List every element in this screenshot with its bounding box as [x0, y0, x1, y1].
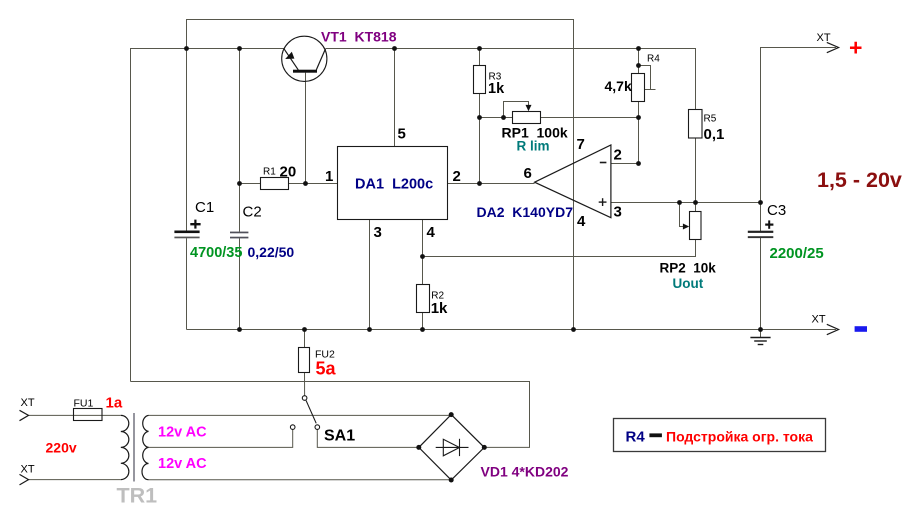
wire C1 column lower [186, 238, 188, 329]
potentiometer RP1 wiper arrowhead [526, 105, 532, 111]
wire R1 left [240, 183, 261, 185]
node plus-RP2top [693, 200, 698, 205]
capacitor C3 top plate [748, 231, 774, 233]
svg-text:220v: 220v [46, 439, 77, 455]
wire R4 bottom column [638, 102, 640, 164]
svg-text:R5: R5 [704, 113, 717, 124]
svg-text:0,22/50: 0,22/50 [248, 244, 295, 260]
svg-text:4700/35: 4700/35 [190, 245, 242, 261]
node bridge right [482, 445, 487, 450]
wire RP1 row left [480, 117, 513, 119]
wire DA1 pin2 to op-amp output [448, 183, 535, 185]
wire FU2 upper [304, 330, 306, 348]
wire R5 bottom [695, 138, 697, 203]
svg-text:C1: C1 [195, 199, 214, 216]
node rail-R3 [477, 46, 482, 51]
wire bridge plus return [131, 382, 530, 448]
terminal XT arrow plus output [827, 42, 839, 52]
node pin2-R3 [477, 181, 482, 186]
resistor R3 [474, 66, 486, 94]
wire op-amp minus input [611, 163, 639, 165]
svg-text:C2: C2 [243, 204, 262, 221]
svg-text:RP2 10k: RP2 10k [660, 260, 717, 275]
svg-text:DA1 L200c: DA1 L200c [355, 177, 433, 193]
transistor VT1 emitter line [284, 49, 298, 70]
node RP1 wiper [501, 115, 506, 120]
wire DA1 pin5 [394, 49, 396, 147]
node rail-R4 [636, 46, 641, 51]
svg-text:1k: 1k [488, 81, 505, 97]
svg-text:Подстройка огр. тока: Подстройка огр. тока [666, 428, 813, 444]
fuse FU1 [74, 409, 103, 421]
IC DA1 L200c box [338, 147, 448, 220]
node pin4-row [420, 254, 425, 259]
switch SA1 right contact [315, 425, 320, 430]
transistor VT1 collector line [316, 49, 325, 70]
wire pin4 row to RP2 bottom [423, 240, 696, 257]
svg-text:1a: 1a [106, 395, 123, 412]
wire main rail left of VT1 [131, 49, 284, 382]
wire R2 bottom [422, 313, 424, 330]
wire primary bottom [29, 479, 121, 481]
svg-text:R lim: R lim [517, 139, 550, 154]
transistor VT1 base bar [293, 70, 317, 73]
op-amp plus sign [599, 201, 607, 203]
wire R4 wiper bracket [639, 66, 651, 90]
svg-text:7: 7 [577, 136, 585, 153]
op-amp minus sign [600, 162, 607, 164]
node C2-R1 [237, 181, 242, 186]
svg-text:5a: 5a [316, 359, 337, 379]
svg-text:XT: XT [21, 397, 35, 409]
svg-text:XT: XT [817, 32, 831, 44]
terminal XT arrow bottom-left [20, 474, 29, 485]
potentiometer RP2 body [690, 212, 702, 240]
node bridge top [449, 412, 454, 417]
switch SA1 pole contact [302, 396, 307, 401]
wire ground bus [187, 329, 837, 331]
diode VD1 cathode bar [459, 439, 461, 456]
capacitor C3 plus sign [765, 224, 773, 226]
node bus-R2 [420, 327, 425, 332]
potentiometer RP2 wiper arrowhead [683, 224, 689, 230]
wire secondary bottom to bridge bottom [149, 479, 452, 481]
svg-text:XT: XT [21, 463, 35, 475]
svg-text:SA1: SA1 [324, 427, 355, 444]
svg-text:XT: XT [812, 314, 826, 326]
svg-text:5: 5 [398, 126, 406, 143]
node plus-RP2wiper [677, 200, 682, 205]
wire C3 column lower [760, 237, 762, 338]
svg-text:4,7k: 4,7k [605, 78, 632, 94]
switch SA1 left contact [290, 425, 295, 430]
svg-text:1k: 1k [431, 300, 448, 317]
op-amp DA2 triangle [535, 145, 611, 218]
node rail-C2 [237, 46, 242, 51]
svg-text:3: 3 [374, 224, 382, 241]
node bridge left [416, 445, 421, 450]
node RP1-R4 [636, 115, 641, 120]
terminal XT arrow minus output [827, 324, 839, 334]
transistor VT1 emitter arrow [285, 52, 294, 59]
svg-text:12v AC: 12v AC [158, 456, 207, 472]
capacitor C1 bottom plate [174, 237, 199, 239]
svg-text:FU1: FU1 [74, 398, 94, 410]
capacitor C1 top plate [174, 231, 199, 234]
transformer TR1 core [133, 413, 135, 482]
wire DA1 pin4 to R2 [422, 220, 424, 285]
potentiometer RP1 body [513, 112, 541, 124]
wire op-amp plus input row [611, 202, 761, 204]
svg-text:TR1: TR1 [117, 484, 158, 508]
node rail-pin5 [392, 46, 397, 51]
wire VT1 base column [305, 73, 307, 184]
wire primary top with FU1 [29, 414, 121, 416]
node base-R1 [303, 181, 308, 186]
svg-text:4: 4 [427, 224, 436, 241]
wire RP2 wiper lead [680, 203, 685, 227]
resistor R1 [261, 178, 289, 190]
svg-text:DA2 K140YD7: DA2 K140YD7 [477, 204, 574, 220]
svg-text:4: 4 [577, 213, 586, 230]
resistor R2 [417, 285, 430, 313]
node R3-RP1 [477, 115, 482, 120]
node bus-C2 [237, 327, 242, 332]
wire top loop rail to op-amp pin7 column [187, 20, 574, 330]
wire RP1 wiper bracket [504, 102, 529, 118]
svg-text:2: 2 [453, 168, 461, 185]
wire C3 column upper and plus output [761, 48, 837, 232]
svg-text:Uout: Uout [673, 276, 704, 291]
node bus-C3 [758, 327, 763, 332]
svg-text:R4: R4 [626, 428, 646, 445]
node R4 wiper top [636, 63, 641, 68]
svg-text:1,5 - 20v: 1,5 - 20v [817, 168, 902, 192]
svg-text:C3: C3 [767, 202, 786, 219]
wire RP2 top [695, 203, 697, 212]
legend dash [649, 433, 662, 437]
node bus-FU2 [302, 327, 307, 332]
wire DA1 pin3 [369, 220, 371, 330]
wire secondary top to bridge top [149, 414, 452, 416]
svg-text:6: 6 [524, 165, 532, 182]
wire FU2 lower to switch pole [304, 373, 306, 396]
wire C2 column upper [239, 49, 241, 232]
ground symbol [750, 338, 770, 345]
capacitor C2 bottom plate [230, 237, 248, 239]
node rail-C1 [184, 46, 189, 51]
wire switch left contact to center tap [149, 429, 293, 447]
svg-text:R4: R4 [647, 54, 660, 65]
svg-text:12v AC: 12v AC [158, 425, 207, 441]
legend box [614, 419, 826, 452]
diode VD1 triangle [443, 439, 459, 456]
diode VD1 symbol line [436, 446, 469, 448]
terminal minus symbol [855, 326, 867, 332]
svg-text:3: 3 [614, 204, 622, 221]
svg-text:2200/25: 2200/25 [770, 245, 824, 262]
terminal XT arrow top-left [20, 410, 29, 420]
transformer TR1 secondary winding upper [143, 415, 149, 447]
svg-text:2: 2 [614, 147, 622, 164]
wire main rail right of VT1 [326, 49, 696, 110]
wire R1 right to DA1 pin1 [289, 183, 338, 185]
wire switch right contact to bridge [317, 429, 419, 447]
svg-text:1: 1 [325, 168, 333, 185]
transformer TR1 secondary winding lower [142, 447, 149, 479]
svg-text:VD1 4*KD202: VD1 4*KD202 [481, 464, 569, 480]
transistor VT1 KT818 body [282, 36, 327, 81]
node bus-pin3 [367, 327, 372, 332]
switch SA1 blade [306, 400, 316, 423]
wire RP1 row right [541, 117, 639, 119]
wire C2 column lower [239, 238, 241, 329]
wire R4 wiper tick [645, 89, 656, 91]
node bridge bottom [449, 478, 454, 483]
diode bridge VD1 diamond [419, 415, 485, 480]
capacitor C3 bottom plate [748, 236, 774, 238]
node plus-C3 [758, 200, 763, 205]
svg-text:0,1: 0,1 [704, 126, 725, 143]
svg-text:R1: R1 [263, 166, 276, 177]
svg-text:20: 20 [280, 163, 297, 180]
resistor R5 [689, 110, 703, 139]
svg-text:VT1 KT818: VT1 KT818 [321, 29, 397, 45]
wire R3 top [479, 49, 481, 66]
svg-text:+: + [849, 35, 862, 61]
fuse FU2 [299, 348, 310, 373]
capacitor C1 plus sign [190, 223, 200, 225]
wire R3 bottom [479, 94, 481, 184]
node minus input [636, 161, 641, 166]
node bus-opamp [571, 327, 576, 332]
wire R4 top [638, 49, 640, 74]
capacitor C2 top plate [230, 232, 248, 234]
transformer TR1 primary winding [121, 415, 129, 479]
resistor R4 [632, 74, 645, 102]
wire C1 column upper [186, 49, 188, 231]
